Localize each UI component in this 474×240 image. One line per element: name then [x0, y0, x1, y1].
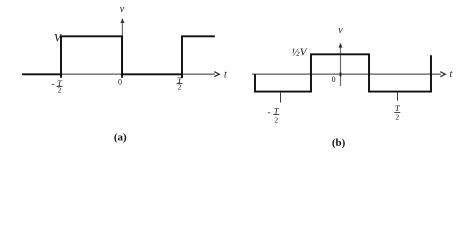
svg-text:v: v	[120, 4, 125, 15]
svg-text:(a): (a)	[114, 132, 127, 144]
svg-text:T: T	[274, 105, 280, 115]
svg-text:(b): (b)	[332, 137, 346, 149]
svg-text:t: t	[224, 70, 227, 81]
svg-text:v: v	[338, 25, 343, 36]
svg-text:2: 2	[178, 82, 182, 91]
svg-text:2: 2	[395, 113, 399, 122]
svg-text:2: 2	[58, 85, 62, 94]
svg-text:-: -	[52, 79, 55, 89]
svg-text:0: 0	[118, 78, 122, 87]
svg-text:2: 2	[274, 116, 278, 125]
svg-text:-: -	[268, 107, 271, 117]
svg-text:½V: ½V	[292, 47, 308, 59]
svg-text:t: t	[450, 69, 453, 80]
svg-text:0: 0	[332, 75, 336, 84]
